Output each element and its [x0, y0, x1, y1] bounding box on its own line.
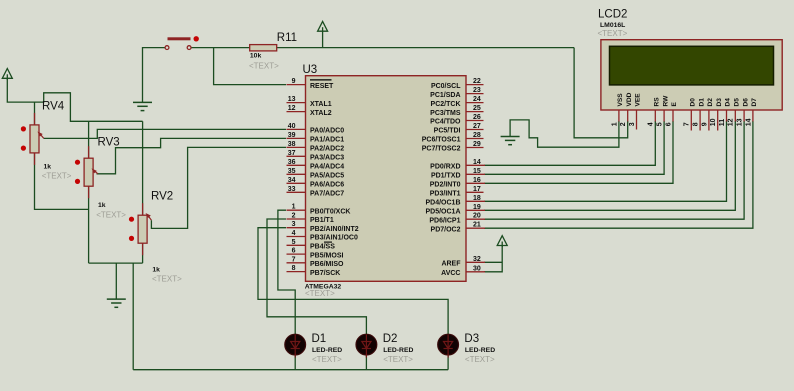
- svg-text:20: 20: [473, 213, 481, 220]
- wire pots ground rail: [89, 262, 143, 264]
- svg-text:RS: RS: [654, 97, 661, 107]
- svg-text:23: 23: [473, 87, 481, 94]
- svg-text:2: 2: [292, 213, 296, 220]
- wire LCD VDD to VCC rail: [574, 48, 628, 138]
- wire button to R11: [191, 47, 250, 49]
- svg-text:PB4/SS: PB4/SS: [310, 244, 335, 251]
- svg-text:22: 22: [473, 78, 481, 85]
- svg-text:PD2/INT0: PD2/INT0: [430, 182, 461, 189]
- wire LCD D5 to U3 pin 19: [484, 121, 735, 210]
- svg-text:26: 26: [473, 114, 481, 121]
- U3 pin 38 PA2/ADC2: [287, 141, 345, 153]
- U3 pin 1 PB0/T0/XCK: [287, 204, 351, 216]
- svg-text:PC2/TCK: PC2/TCK: [431, 101, 461, 108]
- U3 pin 32 AREF: [441, 256, 485, 268]
- svg-text:XTAL2: XTAL2: [310, 110, 332, 117]
- svg-text:PC5/TDI: PC5/TDI: [434, 128, 461, 135]
- svg-text:RW: RW: [662, 95, 669, 107]
- svg-text:D0: D0: [690, 98, 697, 107]
- ground (LCD VSS): [501, 137, 520, 145]
- wire LCD E to U3 pin 16: [484, 121, 673, 183]
- svg-text:18: 18: [473, 195, 481, 202]
- svg-text:LCD2: LCD2: [598, 9, 627, 21]
- U3 pin 3 PB2/AIN0/INT2: [287, 221, 359, 233]
- svg-text:PA2/ADC2: PA2/ADC2: [310, 146, 344, 153]
- svg-text:PA4/ADC4: PA4/ADC4: [310, 164, 344, 171]
- svg-text:PD1/TXD: PD1/TXD: [431, 173, 461, 180]
- svg-text:PB0/T0/XCK: PB0/T0/XCK: [310, 208, 350, 215]
- svg-text:D3: D3: [716, 98, 723, 107]
- svg-text:27: 27: [473, 123, 481, 130]
- RESET overline: [310, 79, 332, 81]
- LED D1 LED-RED: [285, 334, 306, 357]
- LCD pin 1 VSS: [611, 93, 624, 127]
- svg-text:PD7/OC2: PD7/OC2: [431, 226, 461, 233]
- svg-text:16: 16: [473, 177, 481, 184]
- svg-text:PA3/ADC3: PA3/ADC3: [310, 155, 344, 162]
- svg-text:D6: D6: [742, 98, 749, 107]
- svg-text:PC0/SCL: PC0/SCL: [431, 83, 461, 90]
- LCD pin 12 D5: [728, 98, 741, 127]
- svg-text:14: 14: [473, 159, 481, 166]
- U3 pin 35 PA5/ADC5: [287, 168, 345, 180]
- U3 pin 33 PA7/ADC7: [287, 186, 345, 198]
- svg-text:PB6/MISO: PB6/MISO: [310, 261, 344, 268]
- U3 pin 13 XTAL1: [287, 96, 332, 108]
- LCD pin 6 E: [665, 102, 678, 127]
- svg-text:LED-RED: LED-RED: [312, 347, 342, 354]
- svg-text:19: 19: [473, 204, 481, 211]
- svg-text:13: 13: [737, 118, 744, 126]
- wire R11 to VCC rail / LCD VDD net: [277, 47, 574, 49]
- LCD pin 8 D1: [693, 98, 706, 131]
- U3 pin 6 PB5/MOSI: [287, 248, 344, 260]
- svg-text:12: 12: [728, 118, 735, 126]
- LCD pin 11 D4: [719, 98, 732, 127]
- LCD pin 2 VDD: [620, 92, 633, 126]
- U3 pin 4 PB3/AIN1/OC0: [287, 230, 358, 242]
- svg-text:VDD: VDD: [626, 92, 633, 106]
- svg-text:1k: 1k: [152, 267, 160, 274]
- U3 pin 24 PC2/TCK: [431, 96, 484, 108]
- svg-text:VEE: VEE: [635, 93, 642, 107]
- svg-text:U3: U3: [303, 64, 318, 76]
- wire RV2 bottom down: [142, 243, 144, 263]
- svg-text:<TEXT>: <TEXT>: [305, 289, 335, 298]
- U3 pin 28 PC6/TOSC1: [422, 132, 484, 144]
- potentiometer RV2 1k: [129, 203, 152, 255]
- svg-text:10k: 10k: [250, 52, 262, 59]
- svg-text:34: 34: [288, 177, 296, 184]
- wire LED D2 cathode: [365, 355, 367, 370]
- U3 pin 19 PD5/OC1A: [425, 204, 485, 216]
- svg-text:37: 37: [288, 150, 296, 157]
- wire PB2 to LED D3: [258, 228, 448, 335]
- push button: [165, 36, 199, 49]
- svg-text:5: 5: [657, 122, 664, 126]
- U3 pin 18 PD4/OC1B: [425, 195, 485, 207]
- svg-text:D4: D4: [725, 98, 732, 107]
- ground (button): [133, 102, 152, 110]
- wire LED D1 cathode: [294, 355, 296, 370]
- power VCC arrow (AVCC): [497, 236, 507, 247]
- svg-text:1k: 1k: [98, 202, 106, 209]
- svg-text:15: 15: [473, 168, 481, 175]
- svg-text:PD4/OC1B: PD4/OC1B: [425, 200, 460, 207]
- svg-text:36: 36: [288, 159, 296, 166]
- chip U3 ATMEGA32 body: [306, 76, 467, 282]
- svg-text:33: 33: [288, 186, 296, 193]
- wire VCC arrow to pot tops rail: [7, 78, 142, 121]
- U3 pin 12 XTAL2: [287, 105, 332, 117]
- U3 pin 21 PD7/OC2: [431, 222, 485, 234]
- LCD display LCD2 LM016L body: [601, 40, 782, 110]
- svg-text:LED-RED: LED-RED: [465, 347, 495, 354]
- svg-text:<TEXT>: <TEXT>: [152, 275, 182, 284]
- svg-text:<TEXT>: <TEXT>: [465, 355, 495, 364]
- power VCC arrow (reset pull-up): [318, 21, 328, 47]
- svg-text:9: 9: [292, 78, 296, 85]
- LCD pin 4 RS: [648, 97, 661, 127]
- svg-text:PC7/TOSC2: PC7/TOSC2: [422, 146, 461, 153]
- wire PB0 to LED D1: [278, 210, 295, 334]
- wire RV3 top terminal: [88, 121, 90, 158]
- ground (pots): [107, 299, 126, 307]
- svg-text:25: 25: [473, 105, 481, 112]
- wire LCD VSS to ground: [510, 120, 619, 147]
- svg-text:38: 38: [288, 141, 296, 148]
- svg-text:PA5/ADC5: PA5/ADC5: [310, 173, 344, 180]
- U3 pin 39 PA1/ADC1: [287, 132, 345, 144]
- svg-text:D2: D2: [707, 98, 714, 107]
- svg-text:1: 1: [292, 204, 296, 211]
- U3 pin 36 PA4/ADC4: [287, 159, 345, 171]
- U3 pin 37 PA3/ADC3: [287, 150, 345, 162]
- LCD pin 5 RW: [657, 95, 670, 126]
- svg-text:LM016L: LM016L: [600, 22, 625, 29]
- svg-text:PB1/T1: PB1/T1: [310, 217, 334, 224]
- svg-text:<TEXT>: <TEXT>: [598, 29, 628, 38]
- wire LED cathode bus: [133, 369, 448, 371]
- LCD pin 7 D0: [684, 98, 697, 131]
- LCD pin 9 D2: [701, 98, 714, 131]
- U3 pin 14 PD0/RXD: [430, 159, 485, 171]
- U3 pin 20 PD6/ICP1: [429, 213, 485, 225]
- svg-text:9: 9: [701, 122, 708, 126]
- svg-text:PA0/ADC0: PA0/ADC0: [310, 128, 344, 135]
- LCD pin 3 VEE: [629, 93, 642, 130]
- svg-text:4: 4: [648, 122, 655, 126]
- svg-text:D1: D1: [312, 333, 327, 345]
- svg-text:<TEXT>: <TEXT>: [383, 355, 413, 364]
- wire LCD D7 to U3 pin 21: [484, 121, 753, 228]
- wire AVCC to VCC arrow: [484, 246, 502, 272]
- svg-text:PB5/MOSI: PB5/MOSI: [310, 252, 344, 259]
- U3 pin 17 PD3/INT1: [430, 186, 484, 198]
- svg-text:2: 2: [620, 122, 627, 126]
- svg-text:RV2: RV2: [151, 190, 173, 202]
- svg-text:13: 13: [288, 96, 296, 103]
- U3 pin 25 PC3/TMS: [430, 105, 483, 117]
- svg-text:AREF: AREF: [441, 261, 461, 268]
- wire LCD D6 to U3 pin 20: [484, 121, 744, 219]
- wire reset junction to U3 RESET pin 9: [214, 48, 286, 85]
- svg-text:24: 24: [473, 96, 481, 103]
- svg-text:PC3/TMS: PC3/TMS: [430, 110, 461, 117]
- svg-text:PA7/ADC7: PA7/ADC7: [310, 191, 344, 198]
- svg-text:PA6/ADC6: PA6/ADC6: [310, 182, 344, 189]
- svg-text:30: 30: [473, 265, 481, 272]
- svg-text:RV4: RV4: [42, 100, 65, 112]
- svg-text:AVCC: AVCC: [441, 270, 460, 277]
- svg-text:PB7/SCK: PB7/SCK: [310, 270, 340, 277]
- U3 pin 7 PB6/MISO: [287, 256, 345, 268]
- U3 pin 26 PC4/TDO: [430, 114, 483, 126]
- svg-text:17: 17: [473, 186, 481, 193]
- U3 pin 5 PB4/SS: [287, 239, 336, 251]
- U3 pin 15 PD1/TXD: [431, 168, 485, 180]
- U3 pin 2 PB1/T1: [287, 213, 334, 225]
- svg-text:D1: D1: [698, 98, 705, 107]
- svg-text:LED-RED: LED-RED: [383, 347, 413, 354]
- svg-text:PD0/RXD: PD0/RXD: [430, 164, 460, 171]
- wire button to ground: [143, 48, 166, 103]
- svg-text:35: 35: [288, 168, 296, 175]
- potentiometer RV4 1k: [21, 113, 44, 165]
- svg-text:1: 1: [611, 122, 618, 126]
- LCD pin 13 D6: [737, 98, 750, 127]
- svg-text:21: 21: [473, 222, 481, 229]
- svg-text:28: 28: [473, 132, 481, 139]
- svg-text:32: 32: [473, 256, 481, 263]
- U3 pin 30 AVCC: [441, 265, 485, 277]
- wire LCD RS to U3 pin 14: [484, 121, 655, 165]
- svg-text:6: 6: [292, 248, 296, 255]
- wire RV3 wiper to PA1: [97, 138, 287, 173]
- svg-text:RV3: RV3: [98, 137, 120, 149]
- wire RV2 wiper to PA2: [151, 147, 286, 228]
- wire RV3 bottom down: [88, 186, 90, 263]
- svg-text:PD3/INT1: PD3/INT1: [430, 191, 461, 198]
- wire RV4 wiper to PA0: [44, 129, 286, 138]
- svg-text:D3: D3: [464, 333, 479, 345]
- svg-text:12: 12: [288, 105, 296, 112]
- svg-text:39: 39: [288, 132, 296, 139]
- svg-text:<TEXT>: <TEXT>: [42, 172, 72, 181]
- wire LCD RW to U3 pin 15: [484, 121, 664, 174]
- svg-text:1k: 1k: [44, 164, 52, 171]
- U3 pin 29 PC7/TOSC2: [422, 141, 484, 153]
- svg-text:8: 8: [693, 122, 700, 126]
- LCD pin 10 D3: [710, 98, 723, 131]
- U3 pin 22 PC0/SCL: [431, 78, 484, 90]
- svg-text:8: 8: [292, 265, 296, 272]
- svg-text:PB2/AIN0/INT2: PB2/AIN0/INT2: [310, 226, 359, 233]
- svg-text:XTAL1: XTAL1: [310, 101, 332, 108]
- svg-text:29: 29: [473, 141, 481, 148]
- svg-text:10: 10: [710, 118, 717, 126]
- svg-text:RESET: RESET: [310, 83, 334, 90]
- svg-text:6: 6: [665, 122, 672, 126]
- LED D2 LED-RED: [356, 334, 377, 357]
- svg-text:PB3/AIN1/OC0: PB3/AIN1/OC0: [310, 235, 358, 242]
- svg-text:VSS: VSS: [617, 93, 624, 107]
- wire LED D3 cathode: [447, 355, 449, 370]
- U3 pin 9 RESET: [287, 78, 335, 90]
- U3 pin 8 PB7/SCK: [287, 265, 341, 277]
- svg-text:4: 4: [292, 230, 296, 237]
- wire RV4 top terminal: [34, 102, 36, 125]
- svg-text:E: E: [671, 102, 678, 107]
- svg-text:D2: D2: [383, 333, 398, 345]
- svg-text:PC4/TDO: PC4/TDO: [430, 119, 461, 126]
- svg-text:3: 3: [292, 221, 296, 228]
- U3 pin 27 PC5/TDI: [434, 123, 484, 135]
- svg-text:7: 7: [292, 256, 296, 263]
- svg-text:5: 5: [292, 239, 296, 246]
- U3 pin 34 PA6/ADC6: [287, 177, 345, 189]
- svg-text:<TEXT>: <TEXT>: [96, 211, 126, 220]
- LCD screen: [610, 46, 774, 85]
- wire RV2 top terminal: [142, 121, 144, 215]
- svg-text:11: 11: [719, 119, 726, 127]
- svg-text:3: 3: [629, 122, 636, 126]
- svg-text:D5: D5: [734, 98, 741, 107]
- wire RV4 bottom to ground rail: [35, 153, 89, 210]
- U3 pin 23 PC1/SDA: [430, 87, 483, 99]
- LCD pin 14 D7: [745, 98, 758, 127]
- U3 pin 40 PA0/ADC0: [287, 123, 345, 135]
- svg-text:14: 14: [745, 118, 752, 126]
- U3 pin 16 PD2/INT0: [430, 177, 485, 189]
- potentiometer RV3 1k: [75, 146, 98, 198]
- svg-text:D7: D7: [751, 98, 758, 107]
- wire ground rail to ground symbol: [115, 263, 117, 299]
- svg-text:R11: R11: [277, 32, 297, 44]
- resistor R11: [250, 45, 277, 51]
- wire PB1 to LED D2: [267, 219, 366, 335]
- svg-text:PD5/OC1A: PD5/OC1A: [425, 209, 460, 216]
- svg-text:PC6/TOSC1: PC6/TOSC1: [422, 137, 461, 144]
- svg-text:PA1/ADC1: PA1/ADC1: [310, 137, 344, 144]
- wire LCD D4 to U3 pin 18: [484, 121, 727, 201]
- svg-text:<TEXT>: <TEXT>: [249, 62, 279, 71]
- SS overline (pin 5): [324, 241, 332, 243]
- wire AREF to VCC: [484, 261, 502, 263]
- svg-text:40: 40: [288, 123, 296, 130]
- wire ground rail down to LED bus: [132, 263, 134, 370]
- svg-text:<TEXT>: <TEXT>: [312, 355, 342, 364]
- svg-text:PC1/SDA: PC1/SDA: [430, 92, 460, 99]
- power VCC arrow (pots): [2, 69, 12, 81]
- svg-text:7: 7: [684, 122, 691, 126]
- LED D3 LED-RED: [438, 334, 459, 357]
- svg-text:PD6/ICP1: PD6/ICP1: [429, 217, 460, 224]
